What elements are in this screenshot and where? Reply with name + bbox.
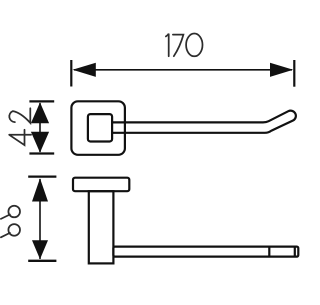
side view mounting cap [73,178,129,192]
dimension 170 right extension tick [293,60,295,87]
dimension 42 down arrowhead [31,132,49,153]
dimension label 170 [166,34,203,57]
dimension 66 down arrowhead [32,240,48,259]
dimension 42 up arrowhead [31,102,49,123]
front view inner square boss [88,114,112,141]
dimension 170 left arrowhead [73,63,96,77]
dimension 170 line [74,69,292,71]
dimension 66 bottom tick [28,260,56,262]
dimension 42 connector line [39,103,41,152]
dimension 42 bottom tick [29,152,54,154]
dimension 66 top tick [28,175,56,177]
front view wall plate (outer rounded square) [71,101,125,155]
side view post [89,191,114,263]
dimension label 42 (rotated) [9,108,31,145]
dimension 66 up arrowhead [32,178,48,201]
side view rail seam line [268,246,270,257]
dimension 170 left extension tick [70,60,72,87]
side view rail end cap line [294,246,296,257]
side view rail bar [113,247,298,257]
dimension 170 right arrowhead [270,63,293,77]
dimension label 66 (rotated) [1,206,20,238]
dimension 42 top tick [29,100,54,102]
dimension 66 connector line [39,179,41,259]
front view holder bar with upturned rounded tip [112,111,296,133]
